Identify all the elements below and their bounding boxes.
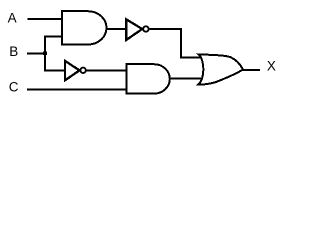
wire OR output to X <box>242 69 260 71</box>
wire AND2 output to OR pin 2 <box>169 78 203 80</box>
inverter NOT1 bubble <box>143 26 148 31</box>
svg-text:X: X <box>267 59 276 74</box>
or-gate U3 <box>198 55 243 85</box>
inverter NOT1 triangle <box>126 19 142 40</box>
wire B vertical through junction <box>44 37 46 71</box>
wire input A to AND1 pin 1 <box>27 18 63 20</box>
and-gate U1 (top AND) <box>62 11 107 44</box>
wire NOT1 output right, down, right to OR pin 1 <box>150 29 202 58</box>
wire NOT2 output to AND2 pin 1 <box>86 69 127 71</box>
and-gate U2 (bottom AND) <box>126 64 170 93</box>
inverter NOT2 bubble <box>80 68 85 73</box>
wire AND1 output to NOT1 input <box>107 28 128 30</box>
wire B branch down to NOT2 input <box>44 70 66 72</box>
wire input B to junction <box>27 53 46 55</box>
junction dot on net B <box>43 51 47 55</box>
inverter NOT2 triangle <box>65 61 80 80</box>
svg-text:B: B <box>9 44 18 59</box>
svg-text:C: C <box>9 79 19 94</box>
svg-text:A: A <box>8 11 17 26</box>
wire input C to AND2 pin 2 <box>27 89 127 91</box>
wire B branch up to AND1 pin 2 <box>44 36 63 38</box>
